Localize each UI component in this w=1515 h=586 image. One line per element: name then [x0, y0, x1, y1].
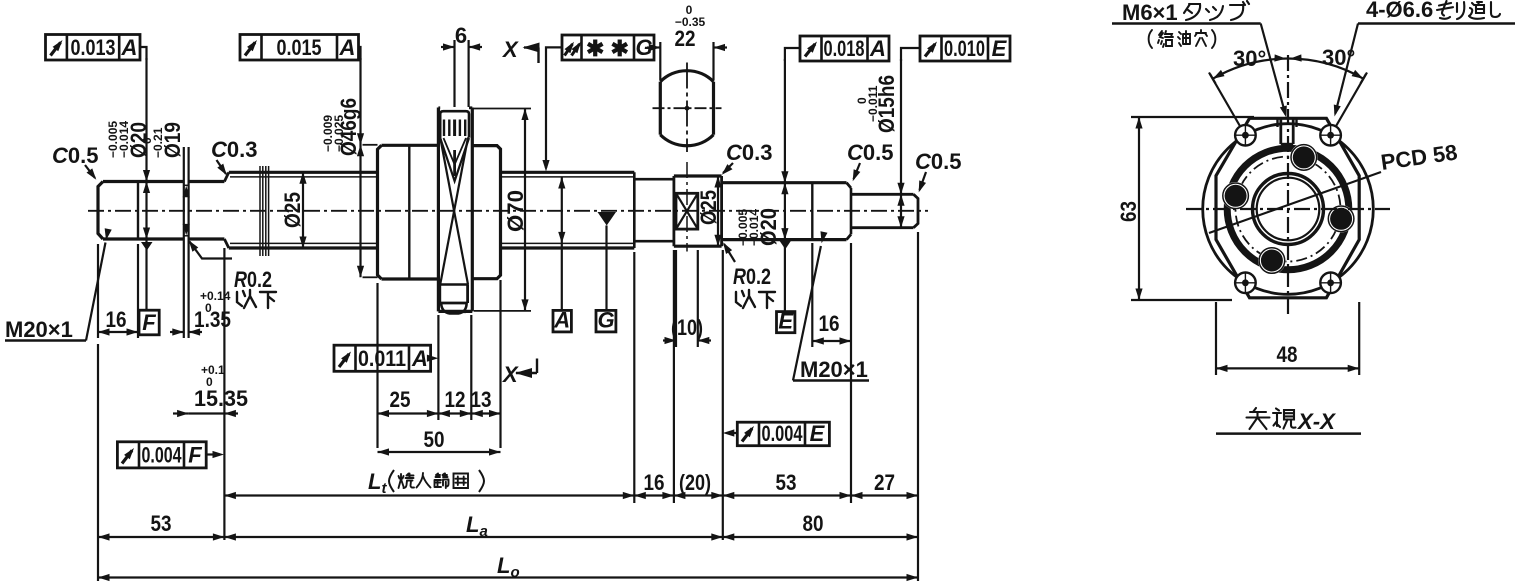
svg-text:C0.3: C0.3: [211, 137, 257, 162]
svg-text:C0.3: C0.3: [726, 140, 772, 165]
flange X diagonals: [440, 138, 468, 285]
svg-text:63: 63: [1116, 201, 1141, 222]
ideograph: ika (below) left: [237, 290, 276, 308]
FCF runout ** G: [542, 35, 654, 172]
Lo dimension row: [98, 553, 918, 581]
svg-text:Ø25: Ø25: [696, 190, 721, 225]
FCF runout 0.011 A: [334, 345, 438, 371]
M20x1 label right: [793, 231, 869, 382]
left journal phi20: [138, 182, 224, 240]
svg-text:−0.014: −0.014: [117, 121, 131, 158]
ball PCD dash circle: [1236, 157, 1341, 262]
phi25 dimension left: [280, 172, 307, 248]
svg-text:16: 16: [819, 311, 840, 336]
phi19 label with tolerance: [140, 122, 185, 158]
svg-text:15.35: 15.35: [194, 386, 248, 411]
nut body phi46g6: [378, 145, 439, 279]
svg-text:0.018: 0.018: [824, 36, 865, 61]
datum box G: [596, 308, 616, 333]
view title: yashi X-X: [1247, 408, 1296, 429]
ideographs: ta-tsu-pu (tap): [1184, 1, 1249, 20]
C0.3 label left: [211, 137, 257, 177]
C0.5 label right (shaft end): [915, 149, 961, 194]
phi20 right dimension + datum E: [780, 59, 792, 312]
C0.5 label left: [52, 143, 99, 182]
svg-text:22: 22: [675, 26, 696, 51]
ball screw thread right section: [501, 172, 635, 248]
wrench flats circle detail: [653, 63, 722, 153]
FCF runout 0.018 A: [785, 36, 889, 61]
FCF runout 0.013 A: [46, 35, 147, 61]
svg-text:(10): (10): [671, 315, 703, 340]
4-phi6.6 drill through label: [1331, 0, 1515, 117]
ball 1 (top): [1290, 144, 1318, 172]
svg-text:Ø70: Ø70: [503, 190, 528, 232]
screw bore circles: [1253, 174, 1324, 245]
C0.3 label right: [719, 140, 772, 177]
phi15h6 dimension: [897, 59, 904, 228]
svg-text:A: A: [339, 35, 356, 60]
datum box A: [553, 308, 571, 333]
svg-text:R0.2: R0.2: [733, 264, 771, 289]
R0.2 label right: [720, 240, 771, 289]
svg-text:M20×1: M20×1: [800, 357, 868, 382]
svg-text:✱ ✱: ✱ ✱: [586, 36, 629, 61]
svg-text:16: 16: [644, 470, 665, 495]
svg-text:−0.011: −0.011: [866, 85, 880, 122]
svg-text:A: A: [553, 308, 570, 333]
FCF runout 0.004 F: [117, 442, 224, 468]
M6x1 tap label: [1112, 0, 1290, 118]
svg-text:48: 48: [1277, 342, 1298, 367]
wrench flat section phi25: [674, 176, 722, 246]
flange bottom detail: [440, 285, 468, 314]
15.35 dimension: [173, 248, 248, 540]
svg-text:−0.21: −0.21: [151, 127, 165, 158]
53 La 80 dimension row: [98, 344, 918, 581]
bolt hole top-left: [1235, 125, 1256, 146]
1.35 dimension: [170, 289, 231, 336]
ideograph: ika (below) right: [736, 290, 775, 308]
end journal phi15h6: [851, 194, 918, 227]
svg-text:R0.2: R0.2: [234, 267, 272, 292]
datum G triangle on centerline: [598, 212, 617, 310]
break marks: [260, 166, 269, 256]
63 dimension: [1116, 117, 1254, 300]
svg-text:0.004: 0.004: [762, 421, 804, 446]
phi70 dimension: [473, 109, 531, 311]
nut collar: [471, 146, 500, 279]
phi25 dimension right: [696, 176, 722, 246]
M6 tap hole recess: [440, 111, 469, 137]
svg-text:F: F: [142, 310, 156, 335]
nut pilot bold circle: [1227, 148, 1349, 270]
phi46g6 dimension line: [357, 58, 378, 277]
bolt hole bottom-left: [1235, 273, 1256, 294]
bolt hole bottom-right: [1320, 273, 1341, 294]
thread relief right: [634, 179, 674, 241]
svg-text:X: X: [501, 362, 519, 387]
ball screw thread left section: [229, 172, 378, 248]
nut flange phi70: [438, 108, 472, 312]
svg-text:C0.5: C0.5: [915, 149, 961, 174]
svg-text:G: G: [597, 308, 614, 333]
6 dimension (tap hole): [441, 23, 482, 107]
svg-text:E: E: [810, 421, 826, 446]
left thread section M20x1: [98, 182, 138, 240]
ideographs: yaki-ire-han-i (hardening range): [399, 473, 469, 488]
svg-text:53: 53: [151, 511, 172, 536]
25 12 13 dimension row: [378, 280, 501, 448]
svg-text:M6×1: M6×1: [1122, 0, 1178, 25]
datum A dimension line on screw root: [558, 177, 565, 310]
svg-text:0: 0: [206, 375, 213, 389]
svg-text:16: 16: [106, 307, 127, 332]
Lt label (hardened range): [368, 469, 484, 497]
FCF runout 0.004 E: [723, 421, 830, 446]
svg-text:50: 50: [424, 427, 445, 452]
svg-text:X-X: X-X: [1296, 409, 1336, 434]
snap ring groove phi19: [183, 147, 190, 338]
drill point: [440, 138, 469, 181]
svg-text:M20×1: M20×1: [5, 317, 73, 342]
22 dimension with tolerance: [647, 3, 727, 80]
svg-text:0.013: 0.013: [71, 35, 116, 60]
phi46g6 label with tolerance: [321, 98, 361, 156]
wrench flat X box: [676, 162, 698, 252]
ideographs: kiri-tooshi (drilled through): [1437, 1, 1500, 19]
svg-text:E: E: [778, 309, 794, 334]
flange octagon outline: [1216, 118, 1359, 297]
svg-text:6: 6: [455, 23, 467, 48]
phi20 dimension line + datum F leader: [141, 58, 153, 310]
svg-text:13: 13: [471, 387, 492, 412]
svg-text:(20): (20): [679, 470, 711, 495]
16 (20) 53 27 dimension row: [634, 470, 918, 499]
svg-text:E: E: [992, 36, 1008, 61]
ball 2 (left): [1222, 182, 1250, 210]
svg-text:−0.025: −0.025: [332, 115, 346, 152]
flange outer circle: [1203, 124, 1374, 295]
svg-text:12: 12: [445, 387, 466, 412]
end view centerlines: [1186, 55, 1390, 318]
ball 3 (right): [1327, 205, 1355, 233]
svg-text:−0.35: −0.35: [675, 15, 706, 29]
phi15h6 label with tolerance: [855, 75, 899, 133]
svg-text:80: 80: [803, 511, 824, 536]
PCD 58 leader: [1209, 139, 1459, 233]
svg-text:27: 27: [874, 470, 895, 495]
FCF runout 0.010 E: [901, 36, 1010, 61]
ball 4 (bottom): [1258, 247, 1286, 275]
svg-text:0: 0: [205, 301, 212, 315]
svg-text:4-Ø6.6: 4-Ø6.6: [1366, 0, 1433, 22]
svg-text:A: A: [121, 35, 138, 60]
svg-text:C0.5: C0.5: [52, 143, 98, 168]
M6 tap hole (end view): [1278, 118, 1297, 145]
svg-text:0.015: 0.015: [277, 35, 322, 60]
16 dimension left: [98, 244, 138, 338]
svg-text:0.010: 0.010: [944, 36, 985, 61]
svg-text:0.011: 0.011: [358, 346, 406, 371]
right journal phi20: [722, 183, 847, 240]
C0.5 label right (thread end): [847, 140, 893, 183]
svg-text:A: A: [869, 36, 886, 61]
phi20 label with tolerance (left): [106, 121, 151, 158]
svg-text:30°: 30°: [1233, 46, 1266, 71]
svg-text:25: 25: [390, 387, 411, 412]
(10) dimension: [663, 250, 711, 347]
datum box F: [139, 310, 159, 335]
30 degree angular dimensions: [1209, 45, 1367, 127]
FCF runout 0.015 A: [240, 35, 361, 61]
svg-text:53: 53: [776, 470, 797, 495]
M6 tap thread hatch: [444, 120, 465, 137]
svg-text:F: F: [188, 443, 202, 468]
oil hole label (kyuyu-ana): [1149, 30, 1216, 48]
16 dimension right: [812, 243, 851, 347]
phi20 label with tolerance (right): [736, 208, 781, 246]
50 dimension: [378, 427, 501, 456]
C0.3 chamfer left: [224, 172, 228, 248]
48 dimension: [1216, 302, 1359, 375]
svg-text:A: A: [411, 346, 428, 371]
shaft centerline: [88, 210, 928, 212]
svg-text:C0.5: C0.5: [847, 140, 893, 165]
section arrow X bottom: [501, 359, 537, 388]
M20x1 label left: [5, 228, 112, 342]
svg-text:0.004: 0.004: [142, 443, 183, 468]
bolt hole top-right: [1320, 125, 1341, 146]
R0.2 label left: [186, 238, 272, 292]
section arrow X top: [501, 37, 540, 63]
svg-text:−0.014: −0.014: [747, 209, 761, 246]
Lt dimension row: [224, 232, 918, 581]
datum box E: [777, 309, 795, 334]
svg-text:+0.1: +0.1: [201, 363, 225, 377]
right thread end chamfer: [847, 183, 852, 240]
svg-text:Ø25: Ø25: [280, 192, 305, 228]
svg-text:X: X: [501, 37, 519, 62]
